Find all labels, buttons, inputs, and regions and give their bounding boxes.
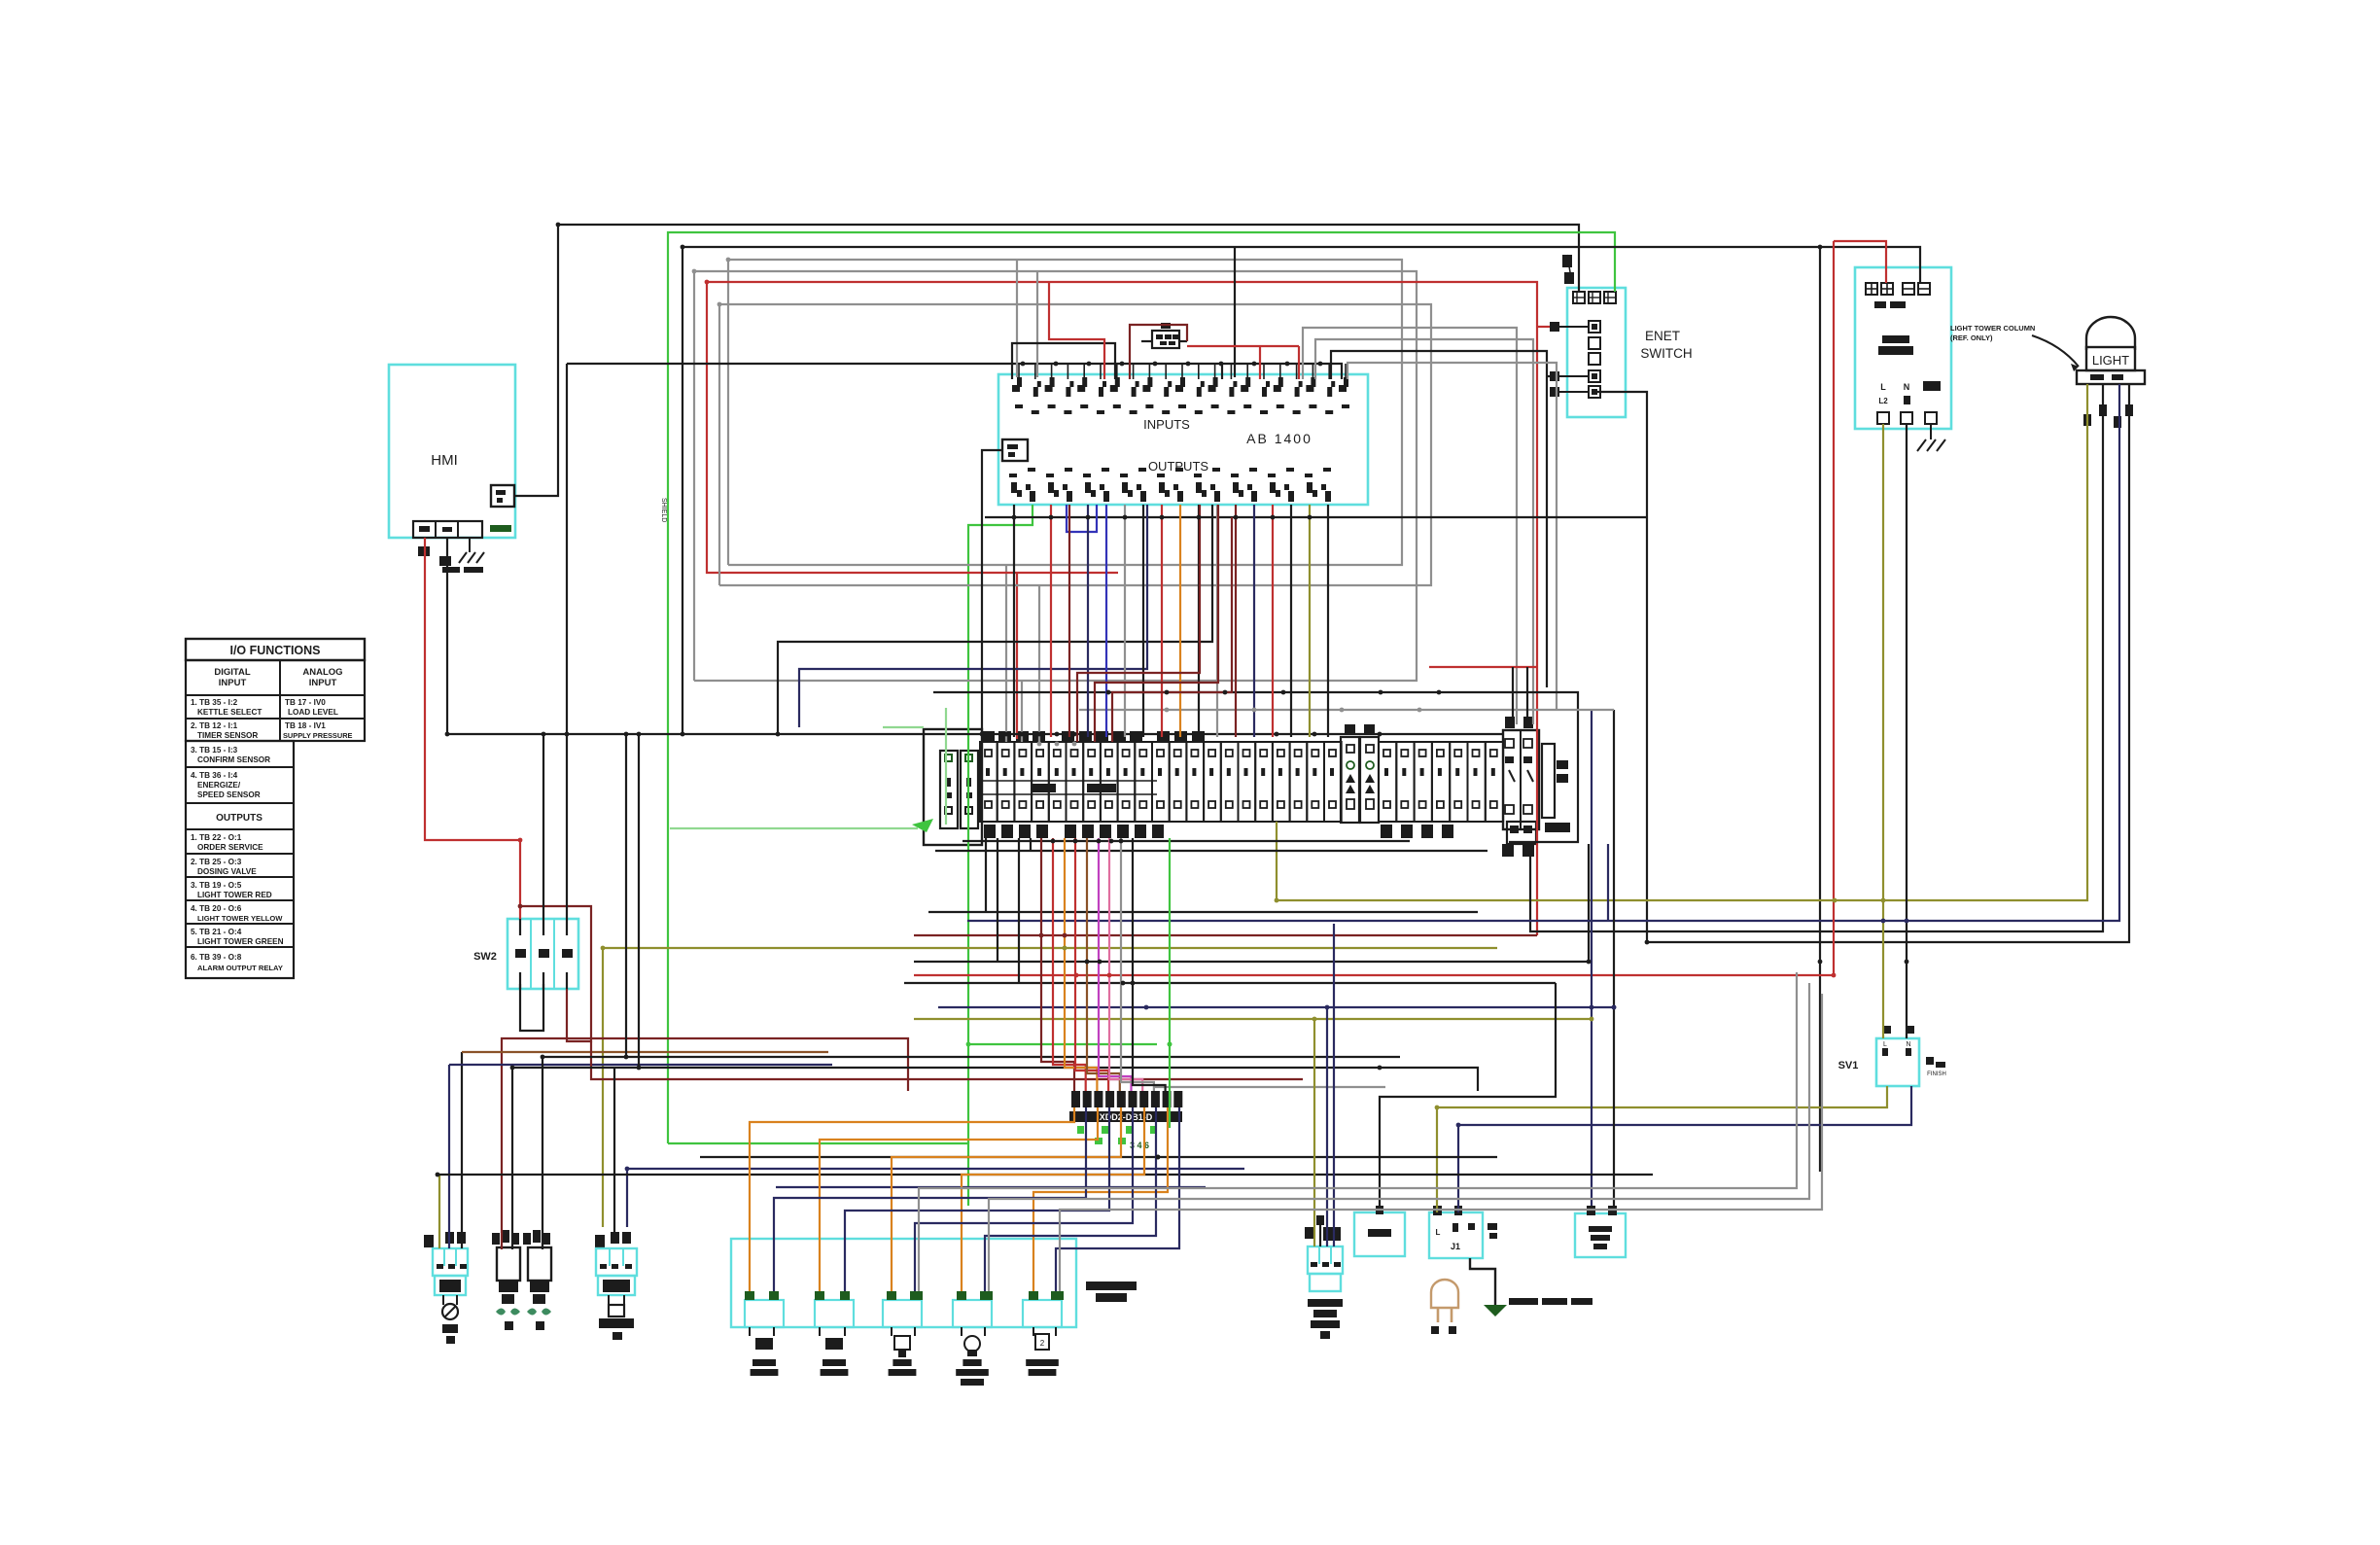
svg-text:AB 1400: AB 1400 bbox=[1246, 431, 1312, 446]
wire relay to alarm 1 bbox=[1591, 710, 1592, 1206]
light tower lead marks bbox=[2083, 404, 2133, 428]
wire output 1 down bbox=[1013, 505, 1015, 737]
svg-text:I/O FUNCTIONS: I/O FUNCTIONS bbox=[229, 644, 320, 657]
wire strip top rail bbox=[933, 692, 1578, 842]
wire rail y1011 bbox=[904, 982, 1556, 984]
svg-text:3. TB 19 - O:5: 3. TB 19 - O:5 bbox=[191, 881, 242, 890]
wire navy feed 5 bbox=[1056, 1107, 1179, 1291]
wire estop feed navy 2 bbox=[1333, 924, 1335, 1247]
wire gray loop 1 drop bbox=[1005, 565, 1007, 742]
svg-text:TB 17 - IV0: TB 17 - IV0 bbox=[285, 698, 326, 707]
XDD breakout connector bbox=[1069, 1091, 1182, 1122]
wire breakout lead 5 bbox=[1087, 838, 1120, 1091]
light tower dome bbox=[2086, 317, 2135, 350]
wire gray feed 3 bbox=[1060, 994, 1822, 1291]
wire SW2 darkred loop bbox=[520, 906, 591, 1041]
wire breakout lead 9 bbox=[1133, 838, 1166, 1091]
wire output 8 down bbox=[1142, 505, 1144, 737]
svg-text:3. TB 15 - I:3: 3. TB 15 - I:3 bbox=[191, 746, 238, 755]
wire breakout lead 4 bbox=[1075, 838, 1108, 1091]
SW2 contacts bbox=[515, 919, 573, 989]
wire pale green 1 bbox=[945, 708, 947, 825]
wire rail y1068 dark red bbox=[502, 1038, 908, 1249]
svg-text:N: N bbox=[1904, 382, 1910, 392]
svg-text:HMI: HMI bbox=[431, 452, 458, 469]
wire rail y938 bbox=[928, 911, 1478, 913]
wire rail y875 bbox=[935, 850, 1487, 852]
shield label bbox=[660, 498, 667, 522]
svg-text:SW2: SW2 bbox=[473, 951, 497, 963]
wire SW2 red feed bbox=[425, 538, 520, 919]
wire c4 black feed bbox=[613, 1068, 615, 1232]
distribution block enclosure bbox=[731, 1239, 1076, 1327]
wire orange feed 5 bbox=[1033, 1107, 1168, 1291]
wire olive to light bbox=[1277, 384, 2087, 900]
SW1 box bbox=[1876, 1038, 1919, 1086]
wire pin wrap gray 1 bbox=[1303, 328, 1517, 724]
wire orange feed 3 bbox=[892, 1107, 1121, 1291]
svg-text:INPUT: INPUT bbox=[219, 678, 247, 688]
wire rail y1087 bbox=[542, 1057, 1400, 1249]
wire rail y1082 brown bbox=[462, 1051, 828, 1053]
wire gray loop 1 bbox=[728, 260, 1402, 565]
distribution sub-box 1 bbox=[745, 1291, 784, 1336]
distribution sub-box 3 bbox=[883, 1291, 923, 1336]
svg-text:SUPPLY PRESSURE: SUPPLY PRESSURE bbox=[283, 731, 353, 740]
svg-text:TIMER SENSOR: TIMER SENSOR bbox=[197, 731, 258, 740]
svg-text:ENERGIZE/: ENERGIZE/ bbox=[197, 781, 241, 790]
ground bar terminals bbox=[940, 751, 978, 828]
wire rail y865 bbox=[962, 840, 1410, 842]
svg-text:OUTPUTS: OUTPUTS bbox=[216, 813, 262, 824]
wire red drop 1336 bbox=[1298, 346, 1300, 379]
connector J7 (spare) bbox=[595, 1232, 637, 1340]
wire red main rail bbox=[914, 241, 1834, 975]
ENET uplink icon bbox=[1562, 255, 1574, 284]
wire pin wrap gray 3 bbox=[1347, 363, 1557, 710]
svg-text:(REF. ONLY): (REF. ONLY) bbox=[1950, 334, 1993, 342]
wire black to light 4 bbox=[1647, 384, 2129, 942]
light tower LIGHT box bbox=[2086, 347, 2135, 370]
wire navy feed 1 bbox=[774, 1107, 1086, 1291]
svg-text:SHIELD: SHIELD bbox=[660, 498, 667, 522]
wire output 7 down bbox=[1124, 505, 1126, 737]
ground arrow at strip left bbox=[912, 819, 933, 832]
wire dark red strip feed 1 bbox=[1077, 505, 1200, 742]
svg-text:L: L bbox=[1880, 382, 1886, 392]
wire pin wrap black bbox=[1331, 351, 1547, 687]
svg-text:SV1: SV1 bbox=[1838, 1060, 1859, 1071]
connector J3 bbox=[523, 1230, 551, 1330]
svg-text:FINISH: FINISH bbox=[1927, 1071, 1946, 1077]
svg-text:DIGITAL: DIGITAL bbox=[214, 667, 250, 678]
wire gray feed 2 bbox=[989, 983, 1809, 1291]
PLC input terminals bbox=[1012, 364, 1349, 414]
svg-text:2. TB 12 - I:1: 2. TB 12 - I:1 bbox=[191, 721, 238, 730]
power supply label bbox=[1878, 335, 1913, 355]
wire red loop bbox=[707, 282, 1537, 935]
distribution bottom icons and labels bbox=[751, 1334, 1059, 1386]
wire dark red strip feed 3 bbox=[1112, 517, 1232, 742]
I/O FUNCTIONS table bbox=[186, 639, 365, 978]
ground at HMI bbox=[442, 538, 484, 573]
wire rail y1036 navy bbox=[938, 1006, 1614, 1008]
svg-text:LIGHT TOWER GREEN: LIGHT TOWER GREEN bbox=[197, 937, 284, 946]
wire estop feed navy 1 bbox=[1326, 1007, 1328, 1247]
wire relay drop 1 bbox=[1588, 844, 1590, 962]
terminal strip bottom marks bbox=[984, 825, 1453, 838]
wire hmi-enet black bbox=[514, 225, 1579, 496]
wire SW2 black U bbox=[520, 984, 543, 1031]
wire strip top rail gray bbox=[1079, 709, 1614, 711]
wire input drop 3 bbox=[1234, 247, 1236, 377]
wire ss icon stub right bbox=[1178, 340, 1187, 342]
wire input common rail bbox=[567, 364, 1342, 379]
wire gray loop 2 drop bbox=[1021, 681, 1023, 742]
wire breakout lead 7 bbox=[1109, 838, 1142, 1091]
terminal strip label band bbox=[980, 781, 1157, 794]
wire breakout lead 8 bbox=[1121, 838, 1154, 1091]
light tower note label bbox=[1950, 324, 2079, 371]
wire ps N to SW1 bbox=[1906, 424, 1907, 1038]
wire enet port5 down bbox=[1594, 392, 1647, 942]
wire estop feed olive bbox=[1313, 1019, 1315, 1247]
wire SW2 up black 2 bbox=[566, 364, 568, 919]
wire black loop y660 bbox=[778, 505, 1212, 734]
wire enet port4 stub bbox=[1547, 375, 1550, 377]
svg-text:2: 2 bbox=[1040, 1339, 1045, 1348]
ENET left ports bbox=[1550, 321, 1600, 398]
wire rail y1190 bbox=[700, 1156, 1497, 1158]
svg-text:1. TB 22 - O:1: 1. TB 22 - O:1 bbox=[191, 833, 242, 842]
E-STOP connector bbox=[1305, 1215, 1343, 1339]
svg-text:DOSING VALVE: DOSING VALVE bbox=[197, 867, 257, 876]
SW2 box bbox=[507, 919, 578, 989]
wire black to light 2 bbox=[1530, 384, 2103, 931]
wire input sub-rail black bbox=[1012, 343, 1115, 379]
SW1 side icon bbox=[1926, 1057, 1946, 1077]
wire dc branch black bbox=[1819, 247, 1821, 1172]
wire SW1 to J1 olive bbox=[1437, 1086, 1887, 1212]
power supply output terminals bbox=[1877, 381, 1941, 424]
wire gray loop 2 bbox=[694, 271, 1417, 681]
wire red drop to strip bbox=[1016, 573, 1018, 739]
wire navy feed 3 bbox=[915, 1107, 1133, 1291]
wire red to power supply bbox=[1834, 241, 1886, 283]
distribution block label bbox=[1086, 1282, 1137, 1302]
wire output 4 down bbox=[1068, 505, 1070, 737]
EXT box bbox=[1354, 1206, 1405, 1256]
wire pale green horiz bbox=[883, 726, 924, 728]
connector J2 bbox=[492, 1230, 520, 1330]
svg-text:1. TB 35 - I:2: 1. TB 35 - I:2 bbox=[191, 698, 238, 707]
wire red rail right of icon bbox=[1187, 345, 1299, 347]
terminal strip left enclosure bbox=[924, 729, 982, 845]
svg-text:5. TB 21 - O:4: 5. TB 21 - O:4 bbox=[191, 928, 242, 936]
J1 connector box bbox=[1429, 1206, 1497, 1258]
wire input rail drop 1257 bbox=[1221, 364, 1223, 379]
light tower base bbox=[2077, 370, 2145, 384]
svg-text:TB 18 - IV1: TB 18 - IV1 bbox=[285, 721, 326, 730]
svg-text:INPUT: INPUT bbox=[309, 678, 337, 688]
svg-text:4. TB 36 - I:4: 4. TB 36 - I:4 bbox=[191, 771, 238, 780]
PLC AB 1400 box bbox=[998, 374, 1368, 505]
wire gray rail y1118 bbox=[1154, 1086, 1385, 1088]
wire ps L2 to SW1 bbox=[1882, 424, 1884, 1038]
svg-text:N: N bbox=[1906, 1041, 1910, 1048]
J1 plug bbox=[1431, 1280, 1458, 1334]
wire red rail above relay bbox=[1429, 666, 1537, 668]
wire orange feed 1 bbox=[750, 1107, 1074, 1291]
svg-text:LIGHT: LIGHT bbox=[2092, 353, 2129, 368]
wire red drop 1296 bbox=[1259, 346, 1261, 379]
svg-text:ANALOG: ANALOG bbox=[302, 667, 342, 678]
svg-text:4. TB 20 - O:6: 4. TB 20 - O:6 bbox=[191, 904, 242, 913]
terminal strip heavy top marks bbox=[982, 731, 1205, 743]
wire orange feed 4 bbox=[962, 1107, 1144, 1291]
wire rail y1202 navy bbox=[627, 1169, 1244, 1227]
wire mid drop 657 bbox=[638, 734, 640, 1068]
wire mid drop 644 bbox=[625, 734, 627, 1057]
wire gray feed 1 bbox=[919, 972, 1797, 1291]
wire output 5 down bbox=[1087, 505, 1089, 737]
wire relay coil drop 1 bbox=[1512, 667, 1514, 720]
wire gray loop 3 bbox=[719, 304, 1431, 585]
wire output common rail y532 bbox=[985, 516, 1647, 518]
PLC output terminals bbox=[1009, 468, 1331, 502]
wire strip drop k4 bbox=[1030, 838, 1032, 851]
wire orange feed 2 bbox=[820, 1107, 1098, 1291]
svg-text:L: L bbox=[1436, 1228, 1441, 1237]
wire navy to light bbox=[967, 384, 2119, 921]
wire SW2 darkred down bbox=[591, 1041, 1303, 1079]
wire rail y962 dark red bbox=[914, 934, 1537, 936]
wire rail y989 bbox=[914, 961, 1589, 963]
svg-text:KETTLE SELECT: KETTLE SELECT bbox=[197, 708, 262, 717]
wire ss icon darkred loop bbox=[1130, 325, 1187, 379]
wire ss icon stub left bbox=[1141, 340, 1152, 342]
wire relay coil drop 2 bbox=[1526, 667, 1528, 720]
power supply DC OUT ports bbox=[1866, 283, 1930, 308]
svg-text:ORDER SERVICE: ORDER SERVICE bbox=[197, 843, 263, 852]
wire breakout lead green bbox=[1169, 838, 1171, 1128]
wire bottom rail y1208 bbox=[439, 1174, 1653, 1176]
SW1 contacts bbox=[1882, 1026, 1914, 1056]
wire estop feed stub bbox=[1319, 1225, 1321, 1247]
wire shield green bbox=[668, 232, 1615, 1143]
wire pale green to arrow bbox=[670, 827, 918, 829]
wire c1 drop black bbox=[461, 1052, 463, 1248]
distribution sub-box 5 bbox=[1023, 1291, 1064, 1336]
wire input drop gray 2 bbox=[1036, 271, 1038, 377]
svg-text:L: L bbox=[1883, 1041, 1887, 1048]
svg-text:LIGHT TOWER YELLOW: LIGHT TOWER YELLOW bbox=[197, 914, 283, 923]
wire output 15 down bbox=[1272, 505, 1274, 737]
distribution sub-box 2 bbox=[815, 1291, 854, 1336]
PLC ethernet port bbox=[1002, 439, 1028, 461]
svg-text:J1: J1 bbox=[1451, 1242, 1460, 1251]
svg-text:L2: L2 bbox=[1878, 397, 1888, 405]
wire relay drop 2 bbox=[1607, 844, 1609, 921]
wire dark red strip feed 2 bbox=[1095, 505, 1218, 742]
terminal strip right blocks bbox=[1379, 742, 1503, 822]
J1 ground wire and symbol bbox=[1470, 1258, 1507, 1317]
wire output 6 down bbox=[1105, 505, 1107, 737]
wire breakout lead 1 bbox=[1041, 838, 1074, 1091]
wire dc bus black bbox=[682, 247, 1920, 734]
wire output 18 down bbox=[1327, 505, 1329, 737]
fuse terminal blocks bbox=[1341, 724, 1379, 823]
wire relay to alarm 2 bbox=[1613, 710, 1615, 1206]
wire SW2 up black 1 bbox=[542, 734, 544, 919]
wire pin wrap gray 2 bbox=[1315, 339, 1533, 724]
wire rail y1221 navy bbox=[776, 1186, 1206, 1188]
wire strip drop k1 bbox=[985, 838, 987, 912]
alarm output relay box bbox=[1575, 1206, 1626, 1257]
wire navy feed 4 bbox=[985, 1107, 1156, 1291]
wire navy feed 2 bbox=[845, 1107, 1109, 1291]
wire output 10 down bbox=[1179, 505, 1181, 737]
svg-text:LIGHT TOWER COLUMN: LIGHT TOWER COLUMN bbox=[1950, 324, 2035, 333]
svg-text:6. TB 39 - O:8: 6. TB 39 - O:8 bbox=[191, 953, 242, 962]
wire navy U under outputs bbox=[1067, 505, 1097, 532]
wire green output down bbox=[968, 505, 1032, 1143]
HMI status LED bbox=[490, 525, 511, 532]
ENET switch box bbox=[1567, 288, 1626, 417]
wire output 14 down bbox=[1253, 505, 1255, 737]
XDD green marks bbox=[1077, 1126, 1157, 1150]
ground at power supply bbox=[1917, 424, 1945, 451]
wire navy loop y690 bbox=[799, 505, 1147, 727]
svg-text:SWITCH: SWITCH bbox=[1640, 346, 1692, 361]
wire green rail y1074 bbox=[968, 1043, 1157, 1045]
wire breakout lead 6 bbox=[1099, 838, 1132, 1091]
wire breakout lead 2 bbox=[1053, 838, 1086, 1091]
HMI power terminals bbox=[413, 521, 482, 538]
power supply box bbox=[1855, 267, 1951, 429]
svg-text:ALARM OUTPUT RELAY: ALARM OUTPUT RELAY bbox=[197, 964, 283, 972]
connector J6 (left) bbox=[424, 1232, 468, 1344]
wire output 12 down bbox=[1216, 505, 1218, 737]
relay block at strip end bbox=[1502, 717, 1539, 857]
svg-text:2. TB 25 - O:3: 2. TB 25 - O:3 bbox=[191, 858, 242, 866]
SW2 label bbox=[473, 951, 497, 963]
svg-text:INPUTS: INPUTS bbox=[1143, 417, 1190, 432]
wire output 17 down bbox=[1309, 505, 1311, 737]
wire rail y1098 bbox=[512, 1068, 1478, 1249]
wire c1 drop olive bbox=[438, 1175, 440, 1248]
wire input sub-rail red bbox=[1049, 282, 1104, 379]
wire gray loop 3 drop bbox=[1038, 585, 1040, 742]
network icon above PLC bbox=[1152, 323, 1179, 348]
wire strip drop k2 bbox=[997, 838, 998, 962]
HMI ethernet port bbox=[491, 485, 514, 507]
distribution sub-box 4 bbox=[953, 1291, 993, 1336]
SW1 label bbox=[1838, 1060, 1859, 1071]
svg-text:SPEED SENSOR: SPEED SENSOR bbox=[197, 790, 261, 799]
terminal strip blocks bbox=[980, 742, 1342, 822]
wire c1 drop navy bbox=[448, 1065, 450, 1248]
svg-text:LIGHT TOWER RED: LIGHT TOWER RED bbox=[197, 891, 272, 899]
wire output 13 down bbox=[1235, 505, 1237, 737]
HMI wire lugs bbox=[418, 546, 451, 566]
HMI box bbox=[389, 365, 515, 538]
wire plc eth down bbox=[982, 450, 1002, 734]
wire rail y1095 navy bbox=[449, 1064, 832, 1066]
wire green to breakout bbox=[668, 1143, 968, 1206]
wire output 3 down bbox=[1050, 505, 1052, 737]
svg-text:CONFIRM SENSOR: CONFIRM SENSOR bbox=[197, 755, 270, 764]
wire rail y1048 olive bbox=[914, 1018, 1592, 1020]
wire output 9 down bbox=[1161, 505, 1163, 737]
wire strip drop k3 bbox=[1018, 838, 1020, 983]
ENET top ports bbox=[1573, 292, 1616, 303]
wire breakout lead 3 bbox=[1065, 838, 1097, 1091]
wire output 16 down bbox=[1290, 505, 1292, 737]
svg-text:LOAD LEVEL: LOAD LEVEL bbox=[288, 708, 338, 717]
wire output 11 down bbox=[1198, 505, 1200, 737]
wire SW1 to J1 navy bbox=[1458, 1086, 1911, 1212]
wire ext feed bbox=[1380, 983, 1556, 1206]
wire red stub to enet bbox=[1537, 326, 1550, 328]
wire input drop gray 1 bbox=[1016, 260, 1018, 377]
wire 24v rail bbox=[447, 538, 1503, 734]
svg-text:ENET: ENET bbox=[1645, 329, 1680, 343]
wire rail y975 olive bbox=[603, 948, 1497, 1227]
ENET switch label bbox=[1640, 329, 1692, 361]
J1 ground note bbox=[1509, 1298, 1592, 1305]
relay block bracket bbox=[1542, 744, 1570, 832]
